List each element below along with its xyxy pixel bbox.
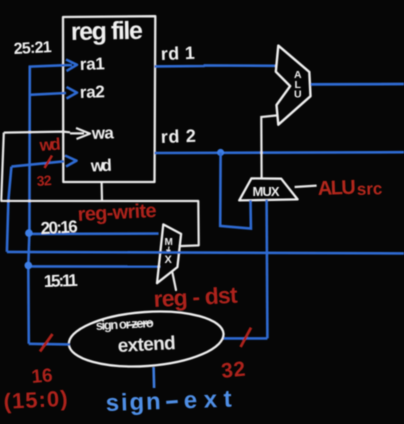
wire sign-ext up to mux input2	[265, 200, 268, 339]
mux ALUsrc trapezoid	[239, 178, 297, 200]
junction dot rd2	[217, 149, 224, 156]
arrowhead wd	[65, 156, 77, 167]
svg-text:ALU: ALU	[317, 177, 356, 200]
wire mux to ALU second input	[261, 115, 277, 178]
wire 20:16 to reg-dst mux	[29, 232, 158, 235]
wd vertical wire down-left	[7, 167, 11, 252]
op-amp ALU	[276, 46, 311, 125]
wire reg-dst mux output loop to wa	[1, 133, 199, 247]
wire wd (blue)	[11, 161, 64, 166]
svg-text:20:16: 20:16	[40, 217, 78, 238]
svg-text:M: M	[165, 237, 173, 248]
svg-text:32: 32	[220, 358, 246, 383]
junction dot 15:11	[25, 262, 33, 270]
svg-text:reg file: reg file	[71, 17, 144, 46]
arrowhead ra2	[67, 87, 78, 99]
sign extend ellipse	[67, 307, 225, 372]
svg-text:rd 1: rd 1	[160, 43, 195, 64]
wire rd2 junction down to mux input1	[220, 153, 251, 229]
mux reg-dst trapezoid	[157, 224, 181, 283]
svg-text:U: U	[294, 89, 302, 101]
wire 15:0 into sign extend	[29, 342, 70, 345]
wire rd2 long	[155, 151, 404, 154]
svg-text:extend: extend	[117, 333, 176, 357]
strikethrough zero	[127, 323, 153, 326]
wire ALU output	[311, 83, 404, 86]
wire sign extend right output	[224, 337, 268, 340]
red slash 32 bus mark	[241, 328, 251, 347]
bus vertical instruction fields	[28, 67, 30, 344]
svg-text:X: X	[165, 254, 173, 266]
red slash 16 bus mark	[40, 334, 53, 352]
svg-text:(15:0): (15:0)	[3, 386, 68, 414]
wire 20:16 branch to ra2	[30, 93, 66, 95]
arrowhead wa	[70, 128, 90, 139]
svg-text:wa: wa	[90, 123, 114, 143]
svg-text:ra1: ra1	[79, 54, 105, 74]
tick to ALUsrc label	[295, 186, 317, 187]
pen overshoot below mux	[172, 273, 176, 291]
svg-text:rd 2: rd 2	[160, 126, 196, 147]
svg-text:32: 32	[36, 172, 52, 189]
red slash 32 bus mark	[45, 156, 53, 169]
wire 25:21 to ra1	[30, 65, 66, 68]
svg-text:25:21: 25:21	[13, 39, 52, 58]
wire wa (white)	[4, 132, 70, 133]
svg-text:15:11: 15:11	[43, 271, 78, 291]
label sign_ext	[105, 386, 232, 417]
reg write stub	[100, 182, 103, 201]
wire sign extend bottom output	[152, 367, 155, 388]
register file box	[63, 16, 155, 182]
svg-text:ext: ext	[183, 386, 232, 415]
svg-text:MUX: MUX	[253, 184, 280, 199]
svg-text:wd: wd	[89, 156, 112, 176]
wire rd1 to ALU	[155, 65, 277, 66]
svg-text:sign: sign	[105, 388, 161, 417]
svg-text:reg-write: reg-write	[77, 200, 157, 226]
junction dot 20:16	[25, 229, 33, 237]
arrowhead ra1	[66, 60, 77, 72]
svg-text:src: src	[356, 179, 382, 199]
wire 15:11 to reg-dst mux	[28, 265, 160, 268]
svg-text:reg - dst: reg - dst	[153, 282, 239, 312]
long wire immediate	[7, 252, 404, 254]
svg-text:16: 16	[31, 365, 54, 388]
svg-text:ra2: ra2	[79, 82, 105, 102]
svg-text:wd: wd	[38, 135, 61, 155]
